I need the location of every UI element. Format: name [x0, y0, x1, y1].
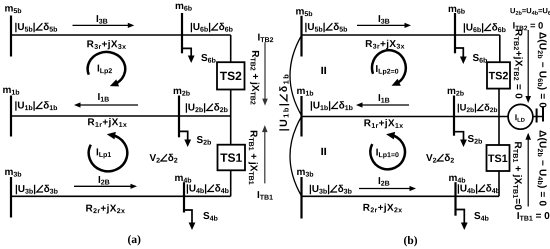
load label S4b (a): [203, 212, 217, 221]
caption (b): [404, 236, 417, 246]
node m6b label: [176, 4, 192, 11]
condition label ITB1 = 0: [517, 212, 549, 221]
voltage delta label Δ(U2b − U4b) = 0: [537, 131, 546, 206]
transformer TS2 box (a): [217, 62, 245, 89]
bus m4b: [183, 182, 185, 212]
value |U2b|∠δ2b (b): [458, 104, 497, 113]
value |U6b|∠δ6b: [191, 23, 233, 32]
load arrow S4b (a): [184, 210, 195, 230]
wire bottom (b) m3b-m4b line: [302, 195, 500, 197]
current label I1B: [98, 93, 109, 101]
bus m1b: [10, 96, 12, 137]
current label I2B (b): [379, 177, 390, 185]
bus m5b (b): [300, 16, 302, 57]
current arrow I3B (b): [357, 23, 411, 28]
node m2b label (b): [448, 89, 464, 96]
load label S4b (b): [474, 212, 488, 221]
loop current ILp2 arrow: [88, 52, 126, 86]
equal-voltage arc m1b-m3b: [290, 117, 302, 197]
load arrow S6b (a): [182, 48, 195, 63]
current arrow ITB1 (a): [262, 125, 268, 183]
node m3b label (b): [297, 170, 313, 177]
impedance label RTB2+jXTB2 (a): [250, 51, 259, 105]
node m5b label (b): [296, 9, 312, 16]
load label S6b (b): [473, 54, 487, 63]
node m2b label: [174, 89, 190, 96]
current label I3B: [97, 15, 108, 24]
condition label ITB2 = 0: [513, 22, 543, 30]
value |U3b|∠δ3b (b): [310, 185, 352, 194]
loop current ILp1 arrow: [89, 132, 128, 171]
caption (a): [128, 235, 140, 245]
voltage delta arrow down (b): [525, 30, 531, 103]
loop current ILp1 label: [97, 148, 111, 158]
bus m5b: [10, 16, 12, 57]
wire middle (b) m1b-ILD line: [302, 116, 508, 118]
equality mark upper ‖: [322, 67, 325, 74]
value |U5b|∠δ5b (b): [305, 23, 347, 32]
value |U1b|∠δ1b (b): [311, 101, 353, 110]
node m1b label: [3, 88, 19, 95]
impedance label R1r+jX1x (b): [364, 119, 403, 128]
wire bottom (a) m3b-m4b line: [11, 195, 231, 197]
voltage label V2∠δ2 (b): [426, 154, 454, 163]
bus m3b (b): [300, 177, 302, 219]
load arrow S2b (a): [179, 131, 191, 147]
value |U6b|∠δ6b (b): [464, 23, 506, 32]
node m6b label (b): [449, 7, 465, 14]
current label I2B: [99, 176, 110, 184]
wire branch TB2 drop (a): [230, 35, 232, 62]
load arrow S4b (b): [456, 210, 468, 231]
impedance label R1r+jX1x (a): [88, 118, 127, 127]
loop current ILp2=0 label (b): [376, 65, 398, 75]
wire branch TB2 to middle (a): [230, 90, 232, 117]
wire middle (a) m1b-m2b line: [11, 115, 231, 117]
current label ITB1 (a): [258, 191, 273, 199]
impedance label R3r+jX3x (a): [87, 40, 126, 49]
node m1b label (b): [297, 89, 313, 96]
node m5b label: [5, 6, 21, 13]
loop current ILp2 label: [98, 65, 112, 75]
bus m6b: [181, 13, 183, 53]
load arrow S6b (b): [455, 48, 467, 64]
node m3b label: [5, 170, 21, 177]
impedance label RTB2+jXTB2 = 0 (b): [513, 30, 522, 99]
wire branch TS1 to bottom (b): [498, 171, 500, 196]
DC-link symbol bars: [533, 107, 543, 123]
wire top (b) m5b-m6b line: [302, 34, 500, 36]
current arrow ITB2 (a): [262, 42, 268, 105]
wire branch TS2 to middle (b): [498, 89, 500, 117]
bus m4b (b): [454, 182, 456, 216]
transformer TS1 box (a): [218, 145, 246, 171]
load label S6b (a): [201, 54, 215, 63]
value |U4b|∠δ4b (b): [458, 184, 500, 193]
current arrow I3B: [73, 23, 135, 28]
load arrow S2b (b): [454, 132, 467, 147]
impedance label R2r+jX2x (b): [363, 203, 402, 212]
current arrow I2B: [74, 184, 137, 189]
loop current ILp1=0 label (b): [376, 149, 398, 159]
bus m2b (b): [453, 96, 455, 136]
bus m1b (b): [300, 96, 302, 137]
bus m2b: [178, 96, 180, 138]
load label S2b (b): [468, 135, 482, 144]
current label ITB2 (a): [258, 34, 273, 42]
condition label U2b=U4b=U6b: [510, 8, 550, 15]
impedance label RTB1+jXTB1=0 (b): [513, 142, 522, 209]
current arrow I1B (b): [356, 102, 409, 107]
loop current ILp2=0 arrow (b): [372, 50, 406, 86]
bus m3b: [10, 177, 12, 218]
value |U5b|∠δ5b: [15, 23, 57, 32]
impedance label RTB1+jXTB1 (a): [248, 131, 257, 185]
node m4b label (b): [449, 176, 465, 183]
value |U2b|∠δ2b: [186, 103, 228, 112]
voltage delta label Δ(U2b − U6b) = 0: [537, 32, 546, 107]
loop current ILp1=0 arrow (b): [370, 132, 405, 169]
impedance label R3r+jX3x (b): [366, 40, 405, 49]
wire top (a) m5b-m6b line: [11, 34, 231, 36]
wire top corner drop (b): [499, 35, 501, 62]
current label I1B (b): [379, 94, 390, 102]
wire branch TB1 drop (a): [230, 116, 232, 145]
wire branch middle to TS1 (b): [498, 117, 500, 146]
transformer TS1 box (b): [487, 145, 510, 171]
value |U4b|∠δ4b: [187, 184, 229, 193]
rotated voltage label |U1b|∠δ1b: [279, 75, 289, 131]
equal-voltage arc m5b-m1b: [290, 36, 302, 116]
transformer TS2 box (b): [487, 62, 510, 88]
current arrow I1B: [74, 102, 138, 107]
current source ILD circle: [508, 104, 533, 129]
equality mark lower ‖: [322, 148, 325, 155]
voltage label V2∠δ2 (a): [150, 154, 178, 163]
current label I3B (b): [379, 15, 390, 24]
current arrow I2B (b): [359, 186, 416, 191]
value |U3b|∠δ3b: [16, 185, 58, 194]
current arrow ITB1 up (b): [525, 133, 531, 207]
load label S2b (a): [197, 136, 211, 145]
impedance label R2r+jX2x (a): [86, 204, 125, 213]
value |U1b|∠δ1b: [15, 101, 57, 110]
bus m6b (b): [454, 13, 456, 53]
node m4b label: [175, 176, 191, 183]
wire branch TB1 to bottom (a): [230, 170, 232, 196]
